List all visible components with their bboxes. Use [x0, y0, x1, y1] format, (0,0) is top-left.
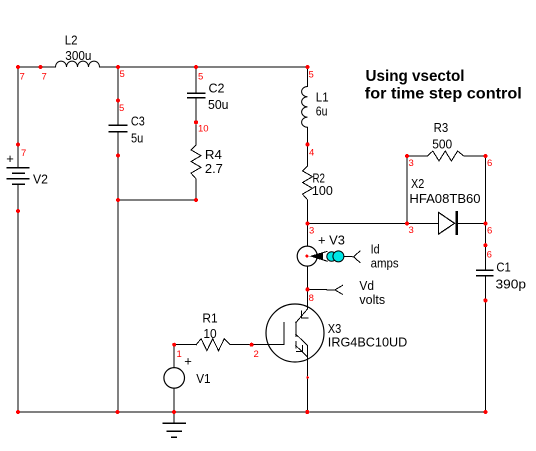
node Id cyan dot 1 [327, 252, 337, 262]
svg-text:3: 3 [409, 158, 414, 169]
wire X3 emitter to bottom rail [307, 345, 309, 412]
wire X2 box left vertical [406, 156, 408, 224]
wire C3 branch upper [117, 67, 119, 125]
wire V3 branch top [307, 224, 309, 247]
wire R1 right lead [230, 344, 252, 346]
node dots [16, 65, 488, 414]
wire R2 bottom [307, 200, 309, 224]
wire right rail lower [485, 276, 487, 413]
svg-text:IRG4BC10UD: IRG4BC10UD [328, 335, 408, 350]
svg-text:5: 5 [119, 103, 124, 114]
wire V1 bottom lead [173, 388, 175, 412]
transistor X3 collector diagonal [296, 309, 308, 323]
inductor L1 [302, 87, 308, 128]
svg-text:L2: L2 [65, 32, 78, 47]
svg-text:R3: R3 [434, 120, 449, 135]
probe Id leads [343, 255, 353, 257]
resistor R3 [428, 151, 464, 161]
resistor R1 [196, 339, 230, 351]
svg-text:X2: X2 [411, 176, 424, 191]
svg-text:Id: Id [371, 241, 380, 256]
wire C2 branch top [195, 67, 197, 93]
svg-text:for time step control: for time step control [365, 86, 522, 103]
resistor R2 [303, 166, 313, 200]
svg-text:7: 7 [20, 72, 25, 83]
wire bottom rail [18, 411, 486, 413]
diode X2 [439, 212, 455, 234]
svg-text:L1: L1 [316, 89, 329, 104]
svg-text:300u: 300u [65, 48, 91, 63]
transistor X3 collector arrowhead [301, 311, 303, 318]
wire V3 to node 8 [307, 266, 309, 309]
svg-text:5u: 5u [131, 130, 143, 145]
svg-text:7: 7 [21, 148, 26, 159]
transistor X3 middle diagonal [296, 334, 308, 345]
svg-text:6u: 6u [316, 104, 328, 119]
wire top rail left segment [18, 66, 56, 68]
transistor X3 circle [266, 304, 324, 362]
inductor L2 [56, 61, 100, 67]
svg-text:2.7: 2.7 [205, 161, 223, 176]
svg-text:8: 8 [309, 293, 314, 304]
transistor X3 gate bar [283, 322, 285, 344]
svg-text:+: + [6, 151, 14, 166]
svg-text:5: 5 [309, 70, 314, 81]
wire diode row left [308, 223, 439, 225]
svg-text:V2: V2 [33, 171, 48, 186]
wire right rail upper [485, 224, 487, 271]
wire top rail right of L2 [100, 66, 308, 68]
node numbers [20, 69, 493, 360]
svg-text:500: 500 [432, 136, 452, 151]
svg-text:Using vsectol: Using vsectol [366, 68, 465, 85]
wire R4 bottom [195, 179, 197, 200]
node Id cyan dot 2 [333, 251, 344, 262]
svg-text:+: + [184, 353, 192, 368]
svg-text:+ V3: + V3 [318, 232, 345, 247]
transistor X3 channel bar segments [295, 322, 297, 337]
transistor X3 emitter arrowhead [301, 346, 303, 352]
wire diode row right [458, 223, 486, 225]
svg-text:C3: C3 [131, 114, 145, 129]
wire R4-C3 junction [118, 199, 196, 201]
wire L1 branch top [307, 67, 309, 87]
svg-text:2: 2 [254, 349, 259, 360]
wire C3 branch lower [117, 132, 119, 413]
current source V3 [297, 246, 317, 266]
svg-text:Vd: Vd [359, 278, 374, 293]
capacitor C3 [109, 125, 126, 131]
svg-text:amps: amps [371, 256, 399, 271]
wire R1 left lead [174, 344, 196, 346]
wire left rail lower [17, 184, 19, 412]
wire C2 to R4 [195, 98, 197, 145]
V3 arrow [310, 251, 328, 261]
svg-text:7: 7 [42, 72, 47, 83]
svg-text:5: 5 [198, 71, 203, 82]
transistor X3 emitter diagonal [296, 346, 308, 357]
svg-text:390p: 390p [496, 277, 527, 292]
svg-text:V1: V1 [196, 371, 210, 386]
svg-text:10: 10 [198, 124, 209, 135]
battery V2 [7, 168, 29, 185]
source V1 [164, 368, 185, 389]
svg-text:volts: volts [359, 292, 385, 307]
wire gate lead from R1 [252, 344, 284, 346]
svg-text:6: 6 [487, 158, 492, 169]
wire V1 top lead [173, 345, 175, 368]
wire R3 row left [407, 155, 428, 157]
svg-text:R1: R1 [202, 310, 217, 325]
wire L1 to R2 [307, 127, 309, 166]
svg-text:5: 5 [120, 69, 125, 80]
wire left rail upper [17, 67, 19, 168]
wire X2 box right vertical [485, 156, 487, 224]
svg-text:3: 3 [409, 225, 414, 236]
svg-text:HFA08TB60: HFA08TB60 [409, 191, 480, 206]
svg-text:C2: C2 [209, 80, 225, 95]
svg-text:3: 3 [309, 226, 314, 237]
svg-text:C1: C1 [496, 260, 510, 275]
svg-text:50u: 50u [208, 97, 229, 112]
svg-text:100: 100 [312, 183, 333, 198]
svg-text:6: 6 [487, 226, 492, 237]
svg-text:4: 4 [309, 148, 314, 159]
svg-text:R4: R4 [205, 147, 222, 162]
svg-text:1: 1 [177, 349, 182, 360]
resistor R4 [191, 145, 201, 179]
svg-text:10: 10 [203, 326, 216, 341]
ground [173, 412, 175, 423]
capacitor C1 [477, 270, 493, 275]
probe Vd leads [308, 288, 335, 291]
wire R3 row right [464, 155, 486, 157]
svg-text:6: 6 [487, 250, 492, 261]
capacitor C2 [188, 93, 205, 98]
